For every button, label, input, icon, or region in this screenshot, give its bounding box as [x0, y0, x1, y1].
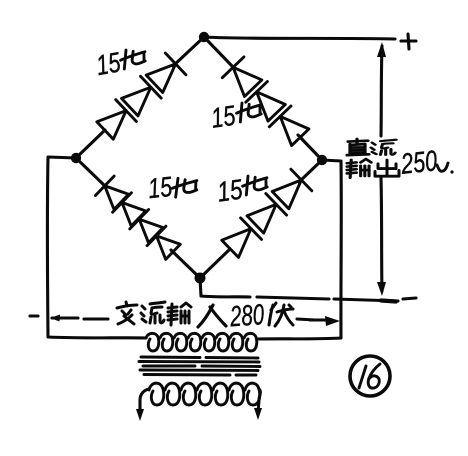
svg-text:15: 15 — [146, 171, 173, 204]
svg-text:15: 15 — [215, 173, 244, 207]
svg-text:250: 250 — [399, 145, 439, 181]
svg-text:280: 280 — [228, 299, 265, 333]
svg-text:15: 15 — [209, 100, 237, 134]
